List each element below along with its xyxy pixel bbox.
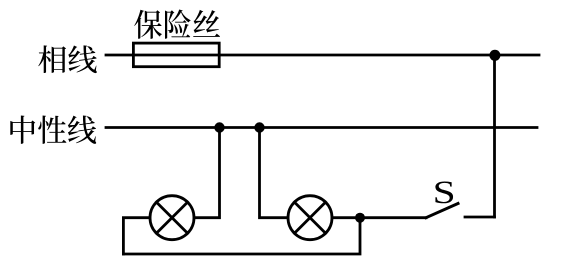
- junction: neutral line / lamp L2 branch: [254, 122, 264, 132]
- svg-text:S: S: [433, 175, 456, 211]
- wire: live line (相线) net: [106, 54, 539, 57]
- lamp L2 circle: [288, 196, 332, 240]
- wire: branch from neutral junction to lamp L2: [260, 128, 289, 218]
- lamp L1 cross: [156, 202, 187, 233]
- wire: switch S right contact stub: [465, 216, 495, 219]
- value label 保险丝 (fuse): [134, 9, 220, 38]
- net label 相线 (live wire): [38, 45, 97, 73]
- wire: lamp L1 left lead down to bottom return wire: [123, 218, 150, 254]
- wire: bottom return wire: [123, 218, 360, 254]
- lamp L1 circle: [150, 196, 194, 240]
- switch S blade (open): [426, 204, 458, 218]
- wire: branch from neutral junction to lamp L1: [194, 128, 220, 218]
- wire: vertical branch from live junction down to switch: [493, 55, 496, 217]
- net label 中性线 (neutral wire): [10, 115, 96, 143]
- lamp L2 cross: [294, 202, 325, 233]
- junction: neutral line / lamp L1 branch: [214, 122, 224, 132]
- wire: neutral line (中性线) net: [106, 126, 537, 129]
- wire: lamp L2 right lead to node A and switch S pivot: [332, 216, 426, 219]
- fuse F1 (保险丝) body: [133, 43, 219, 67]
- junction: live line / switch branch: [489, 50, 500, 61]
- junction: node A (lamp L2 / switch / bottom return): [355, 213, 365, 223]
